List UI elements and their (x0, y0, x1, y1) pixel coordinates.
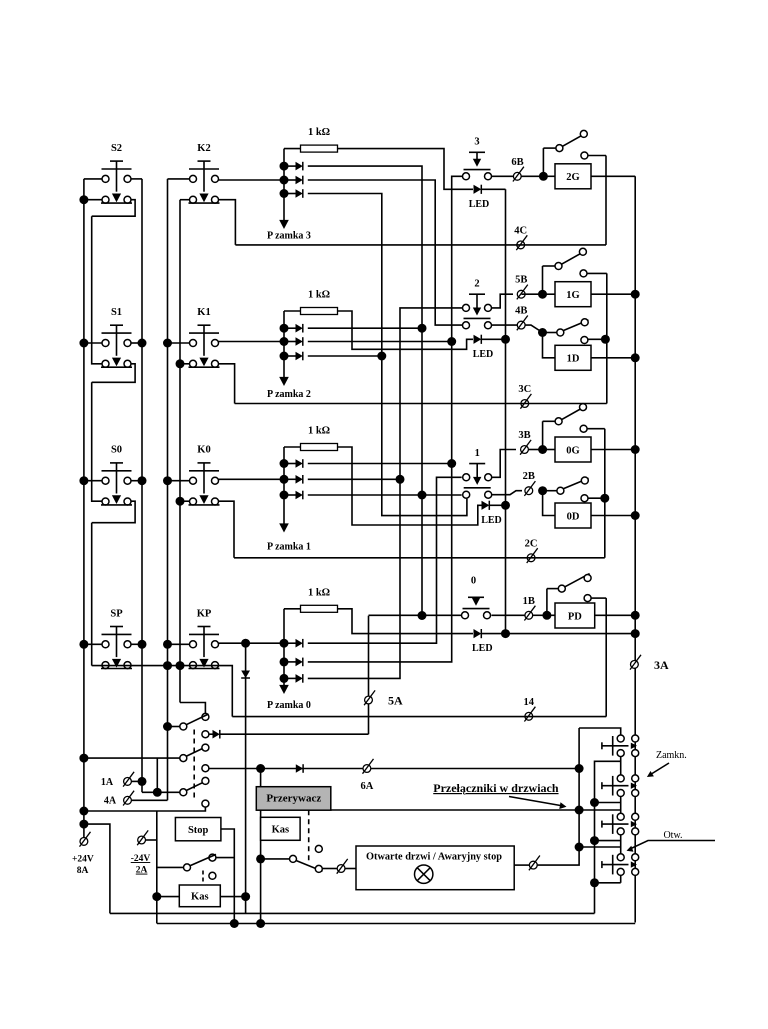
svg-text:1 kΩ: 1 kΩ (308, 127, 330, 138)
svg-text:2C: 2C (525, 538, 538, 549)
svg-text:+24V: +24V (72, 855, 94, 865)
svg-text:Przerywacz: Przerywacz (266, 792, 321, 804)
svg-text:LED: LED (481, 515, 502, 526)
svg-text:1A: 1A (101, 777, 114, 788)
svg-text:1D: 1D (567, 354, 580, 365)
svg-text:P zamka 2: P zamka 2 (267, 389, 311, 400)
svg-text:5A: 5A (388, 694, 403, 708)
svg-text:3A: 3A (654, 658, 669, 672)
svg-text:PD: PD (568, 611, 582, 622)
svg-text:K2: K2 (197, 143, 210, 154)
svg-text:0G: 0G (566, 445, 579, 456)
svg-text:Kas: Kas (191, 892, 209, 903)
svg-text:SP: SP (110, 608, 123, 619)
svg-text:4C: 4C (514, 225, 527, 236)
svg-text:1 kΩ: 1 kΩ (308, 426, 330, 437)
svg-text:0: 0 (471, 575, 476, 586)
svg-text:K1: K1 (197, 307, 210, 318)
svg-text:-24V: -24V (131, 854, 151, 864)
svg-text:8A: 8A (77, 866, 89, 876)
svg-text:4B: 4B (515, 306, 527, 317)
svg-text:3B: 3B (518, 430, 530, 441)
svg-text:LED: LED (472, 643, 493, 654)
svg-text:6B: 6B (511, 157, 523, 168)
svg-text:2A: 2A (136, 866, 148, 876)
svg-text:Kas: Kas (272, 825, 290, 836)
svg-text:P zamka 0: P zamka 0 (267, 700, 311, 711)
svg-text:KP: KP (197, 608, 212, 619)
svg-text:3: 3 (474, 136, 479, 147)
svg-text:Otw.: Otw. (663, 830, 682, 841)
svg-text:2G: 2G (566, 172, 579, 183)
svg-text:1 kΩ: 1 kΩ (308, 290, 330, 301)
svg-text:P zamka 1: P zamka 1 (267, 542, 311, 553)
svg-text:0D: 0D (567, 511, 580, 522)
svg-text:1 kΩ: 1 kΩ (308, 587, 330, 598)
svg-text:1: 1 (475, 448, 480, 459)
svg-text:Otwarte drzwi / Awaryjny stop: Otwarte drzwi / Awaryjny stop (366, 851, 502, 862)
svg-text:LED: LED (469, 199, 490, 210)
svg-text:2B: 2B (523, 471, 535, 482)
svg-text:1G: 1G (566, 290, 579, 301)
svg-text:S0: S0 (111, 445, 122, 456)
svg-text:Przełączniki w drzwiach: Przełączniki w drzwiach (433, 781, 559, 795)
svg-text:P zamka 3: P zamka 3 (267, 231, 311, 242)
svg-text:Stop: Stop (188, 825, 209, 836)
svg-text:K0: K0 (197, 445, 210, 456)
svg-text:2: 2 (474, 278, 479, 289)
svg-text:S2: S2 (111, 143, 122, 154)
svg-text:LED: LED (473, 349, 494, 360)
svg-text:Zamkn.: Zamkn. (656, 750, 687, 761)
svg-text:6A: 6A (360, 781, 373, 792)
svg-text:4A: 4A (104, 796, 117, 807)
svg-text:14: 14 (524, 697, 535, 708)
svg-text:3C: 3C (518, 384, 531, 395)
svg-text:1B: 1B (523, 596, 535, 607)
svg-text:S1: S1 (111, 307, 122, 318)
svg-text:5B: 5B (515, 275, 527, 286)
